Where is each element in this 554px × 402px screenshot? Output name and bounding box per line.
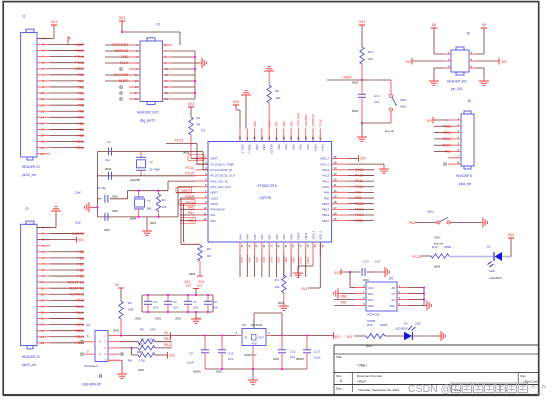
svg-text:VSS: VSS — [389, 304, 395, 308]
svg-text:PB0: PB0 — [77, 122, 84, 126]
svg-text:104: 104 — [290, 355, 295, 359]
wire U3 output 3V3 — [272, 332, 334, 338]
resistor R6 1.5K pullup — [128, 348, 175, 372]
svg-text:28: 28 — [334, 200, 338, 204]
svg-text:TDO/PB3: TDO/PB3 — [304, 114, 308, 127]
svg-text:PA8: PA8 — [324, 196, 330, 200]
svg-text:PB8: PB8 — [77, 268, 84, 272]
svg-text:PA0: PA0 — [78, 73, 84, 77]
LED D1 LED0805 — [395, 322, 422, 341]
power 3V3 decoupling — [186, 284, 203, 296]
svg-text:PB9: PB9 — [255, 145, 259, 151]
resistor R7 1M parallel crystal — [138, 190, 167, 218]
svg-text:PB6: PB6 — [77, 256, 84, 260]
ground reset — [357, 123, 367, 141]
net label PA1 — [180, 211, 196, 215]
ground below crystal rail — [142, 217, 156, 236]
power 3V3 at J3 pins 1-2 — [119, 16, 180, 45]
svg-text:0603: 0603 — [273, 357, 279, 361]
svg-text:PA11: PA11 — [164, 337, 172, 341]
svg-text:PB6: PB6 — [282, 121, 286, 127]
svg-text:C7: C7 — [193, 300, 197, 304]
crystal Y1 8M — [129, 191, 152, 221]
svg-text:PA2: PA2 — [211, 219, 217, 223]
svg-text:PB3: PB3 — [306, 145, 310, 151]
power 3V3 at U1 VDD_3 top pin — [233, 100, 240, 129]
svg-text:J3: J3 — [156, 23, 160, 27]
svg-text:PB7: PB7 — [77, 262, 84, 266]
svg-text:104: 104 — [375, 260, 380, 264]
svg-text:R8: R8 — [140, 328, 144, 332]
svg-text:BOOT0: BOOT0 — [270, 145, 274, 155]
svg-text:C4: C4 — [153, 300, 157, 304]
svg-text:PA12: PA12 — [355, 174, 363, 178]
ground USB pin5 — [108, 360, 127, 378]
svg-text:AT24C02: AT24C02 — [367, 313, 380, 317]
svg-text:30: 30 — [334, 189, 338, 193]
svg-text:22R: 22R — [148, 337, 153, 341]
svg-text:BOOT0: BOOT0 — [72, 232, 84, 236]
svg-text:PB13: PB13 — [355, 213, 364, 217]
svg-text:10k: 10k — [275, 285, 280, 289]
svg-text:10: 10 — [203, 206, 207, 210]
svg-text:WP: WP — [368, 292, 373, 296]
svg-text:R3: R3 — [207, 247, 211, 251]
svg-text:PA1: PA1 — [188, 211, 194, 215]
svg-text:TCLK: TCLK — [319, 119, 323, 127]
svg-text:PA8: PA8 — [78, 317, 84, 321]
power 3V3 flag at J2 pin3 — [37, 237, 84, 243]
capacitor C11 104 — [218, 336, 234, 370]
svg-text:PB1: PB1 — [284, 257, 288, 263]
svg-text:0603: 0603 — [175, 317, 181, 321]
wire left rail crystal caps — [97, 199, 99, 217]
svg-text:Title: Title — [336, 355, 342, 359]
svg-text:C1: C1 — [107, 140, 111, 144]
svg-text:PA7: PA7 — [269, 257, 273, 263]
svg-text:jtag_pin20: jtag_pin20 — [139, 119, 155, 123]
svg-text:Y1: Y1 — [147, 199, 151, 203]
svg-text:27: 27 — [334, 206, 338, 210]
svg-text:PC15-OSC32_OUT: PC15-OSC32_OUT — [211, 174, 236, 178]
svg-text:Document Number: Document Number — [357, 374, 382, 378]
svg-text:NRST: NRST — [211, 191, 219, 195]
power 5V at J5 pin1 — [431, 23, 443, 54]
svg-text:C12: C12 — [290, 350, 296, 354]
svg-text:PB10: PB10 — [297, 232, 301, 239]
net label PB7 SDA — [334, 300, 355, 305]
svg-text:PA13: PA13 — [76, 299, 84, 303]
svg-text:A2: A2 — [391, 298, 395, 302]
svg-text:PA7: PA7 — [78, 116, 84, 120]
power 3V3 at J1 pin1 — [37, 20, 57, 38]
svg-text:PB15: PB15 — [75, 323, 84, 327]
svg-text:PB15: PB15 — [355, 202, 364, 206]
svg-text:PB13: PB13 — [75, 335, 84, 339]
svg-text:3V3: 3V3 — [197, 284, 203, 288]
svg-text:A1: A1 — [391, 292, 395, 296]
wire D1 to ground — [412, 335, 438, 337]
svg-text:PB6: PB6 — [341, 294, 347, 298]
svg-text:C11: C11 — [228, 352, 234, 356]
svg-text:22pF: 22pF — [75, 191, 82, 195]
capacitor C10 10uF — [303, 336, 321, 370]
bottom side rotated net labels — [240, 257, 310, 265]
svg-text:SW2: SW2 — [427, 210, 434, 214]
svg-text:3V3: 3V3 — [508, 233, 514, 237]
svg-text:34: 34 — [334, 166, 338, 170]
ground regulator — [248, 369, 258, 384]
capacitor C1 16p — [105, 140, 112, 171]
svg-text:C8: C8 — [213, 300, 217, 304]
svg-text:3V3: 3V3 — [78, 238, 84, 242]
ground U5 — [424, 301, 431, 311]
svg-text:U1: U1 — [201, 129, 205, 133]
svg-text:Date: Date — [336, 387, 342, 391]
svg-text:<Title>: <Title> — [357, 364, 367, 368]
svg-text:PB6: PB6 — [284, 145, 288, 151]
svg-text:PB11: PB11 — [304, 232, 308, 239]
svg-text:PD1_OSC_OUT: PD1_OSC_OUT — [211, 185, 232, 189]
svg-text:PB5: PB5 — [289, 121, 293, 127]
svg-text:12: 12 — [203, 217, 207, 221]
wire OSC32 bottom rail — [97, 172, 196, 176]
svg-text:PB8: PB8 — [262, 145, 266, 151]
svg-text:PB1: PB1 — [77, 128, 84, 132]
svg-text:PA5: PA5 — [255, 257, 259, 263]
svg-text:0603: 0603 — [138, 368, 144, 372]
resistor R3 0R VDDA filter — [181, 198, 212, 284]
svg-text:TRST/PB4: TRST/PB4 — [112, 43, 128, 47]
svg-text:PA11: PA11 — [355, 179, 363, 183]
capacitor C3 22pF upper — [75, 186, 128, 203]
resistor R1 0R from 3V3 to VBAT — [183, 102, 201, 159]
svg-text:3V3: 3V3 — [501, 60, 507, 64]
svg-text:TDO/PB3: TDO/PB3 — [113, 73, 128, 77]
svg-text:R4: R4 — [275, 278, 279, 282]
svg-text:35: 35 — [334, 161, 338, 165]
svg-text:0603: 0603 — [150, 221, 156, 225]
svg-text:PA11: PA11 — [323, 179, 330, 183]
svg-text:CSDN @: CSDN @ — [408, 383, 451, 395]
svg-text:<Doc>: <Doc> — [357, 380, 367, 384]
power 3V3 wire at U1 VDD_1 bottom pin — [301, 242, 320, 291]
resistor R12 620R — [431, 242, 452, 269]
svg-text:PB4: PB4 — [299, 145, 303, 151]
switch SW1 reset key — [361, 80, 407, 133]
net label PC13 LED — [412, 255, 431, 259]
resistor R8 22R USB D- — [120, 328, 172, 347]
svg-text:PB1: PB1 — [445, 150, 451, 154]
svg-text:R1: R1 — [197, 116, 201, 120]
svg-text:VDDA: VDDA — [211, 202, 219, 206]
ground decoupling bus — [191, 311, 201, 323]
svg-text:PA6: PA6 — [262, 257, 266, 263]
svg-text:OUT: OUT — [258, 336, 265, 340]
svg-text:HEADER 3X2: HEADER 3X2 — [447, 80, 467, 84]
resistor R10 620R — [366, 323, 388, 348]
capacitor C2 16p — [109, 172, 112, 180]
ground at J5 pin5 — [429, 68, 443, 85]
svg-text:VBAT: VBAT — [75, 43, 85, 47]
svg-text:PB15: PB15 — [443, 125, 451, 129]
svg-text:C14: C14 — [374, 94, 380, 98]
svg-text:VSS_1: VSS_1 — [311, 230, 315, 239]
svg-text:3V3: 3V3 — [360, 157, 366, 161]
svg-text:PA0: PA0 — [188, 206, 194, 210]
svg-text:SW1: SW1 — [400, 98, 407, 102]
svg-text:104: 104 — [374, 100, 379, 104]
svg-text:32: 32 — [334, 178, 338, 182]
svg-text:PA8: PA8 — [355, 196, 361, 200]
svg-text:IDHeader5: IDHeader5 — [84, 364, 98, 368]
svg-text:SW1: SW1 — [400, 105, 407, 109]
svg-text:SOT223: SOT223 — [251, 323, 263, 327]
svg-text:PB13: PB13 — [443, 131, 451, 135]
title block — [334, 345, 539, 395]
svg-text:26: 26 — [334, 211, 338, 215]
LED D2 LED0805 — [487, 245, 502, 281]
svg-text:10R: 10R — [128, 308, 134, 312]
svg-text:0603: 0603 — [113, 329, 120, 333]
svg-text:U3: U3 — [242, 323, 246, 327]
svg-text:VDD_2: VDD_2 — [320, 157, 329, 161]
svg-text:0603: 0603 — [352, 109, 359, 113]
svg-text:104: 104 — [173, 306, 178, 310]
wire bus J3 even pins to ground — [172, 51, 199, 99]
svg-text:C3 15p: C3 15p — [97, 186, 106, 190]
power 3V3 reset pullup — [359, 20, 365, 47]
svg-text:C6: C6 — [173, 300, 177, 304]
svg-text:29: 29 — [334, 194, 338, 198]
svg-text:0603: 0603 — [216, 370, 222, 374]
svg-text:PA1: PA1 — [211, 213, 217, 217]
svg-text:5V: 5V — [432, 23, 437, 27]
power 3V3 at J5 pin3 — [405, 58, 443, 65]
svg-text:NRST: NRST — [442, 143, 451, 147]
svg-text:0603: 0603 — [434, 265, 441, 269]
microcontroller U1 STM32 LQFP48 — [196, 129, 349, 278]
svg-text:ja32768: ja32768 — [129, 178, 140, 182]
svg-text:PB7: PB7 — [277, 145, 281, 151]
power 3V3 at U1 VDD_2 right pin — [348, 155, 366, 161]
net label PC13 with wire — [166, 139, 208, 165]
svg-text:0603: 0603 — [112, 195, 118, 199]
power 3V3 at J6 pin1 — [426, 117, 448, 124]
ground at U1 VSS_3 top pin — [241, 91, 251, 129]
wire R12 to D2 — [449, 256, 493, 258]
svg-text:PB5: PB5 — [77, 250, 84, 254]
svg-text:10uF: 10uF — [187, 361, 194, 365]
svg-text:0603: 0603 — [104, 228, 110, 232]
svg-text:PA4: PA4 — [246, 234, 250, 240]
svg-text:PB15: PB15 — [322, 202, 329, 206]
svg-text:pin20_me: pin20_me — [22, 363, 36, 367]
net label NRST boxed at U1 pin7 — [176, 188, 196, 194]
svg-text:VSSA: VSSA — [211, 196, 219, 200]
svg-text:PA6: PA6 — [260, 234, 264, 240]
svg-text:C9: C9 — [189, 352, 193, 356]
connector J1 HEADER 20 — [21, 15, 85, 178]
svg-text:PB11: PB11 — [306, 257, 310, 264]
svg-text:LED0805: LED0805 — [489, 276, 502, 280]
net label VSSA — [180, 194, 196, 198]
svg-text:3V3: 3V3 — [188, 102, 194, 106]
svg-text:R6: R6 — [128, 358, 132, 362]
net 3V3 power LED — [334, 335, 366, 339]
svg-text:PB2: PB2 — [77, 134, 84, 138]
svg-text:^_^: ^_^ — [530, 383, 546, 395]
svg-text:USB-MINI-5P: USB-MINI-5P — [82, 383, 101, 387]
svg-text:3V3: 3V3 — [334, 335, 340, 339]
svg-text:104: 104 — [193, 306, 198, 310]
svg-text:VDD_3: VDD_3 — [248, 145, 252, 154]
svg-text:0603: 0603 — [363, 278, 369, 282]
svg-text:pin_3X2: pin_3X2 — [451, 87, 463, 91]
svg-text:PA13: PA13 — [322, 168, 329, 172]
wire OSC rail to PD0 pin5 — [128, 181, 196, 199]
svg-text:PC14: PC14 — [186, 166, 195, 170]
ground at J5 pin6 — [477, 68, 489, 85]
capacitor C4 104 — [135, 294, 158, 320]
svg-text:J5: J5 — [466, 32, 470, 36]
svg-text:HEADER 10X2: HEADER 10X2 — [137, 111, 159, 115]
svg-text:PA13: PA13 — [355, 168, 363, 172]
svg-text:VDDA: VDDA — [74, 67, 84, 71]
svg-text:104: 104 — [228, 357, 233, 361]
svg-text:3V3: 3V3 — [426, 119, 432, 123]
svg-text:0603: 0603 — [155, 317, 161, 321]
svg-text:0603: 0603 — [189, 272, 196, 276]
svg-text:VBAT: VBAT — [195, 157, 203, 161]
svg-text:AMS1117: AMS1117 — [244, 353, 257, 357]
svg-text:PA1: PA1 — [78, 79, 84, 83]
svg-text:3V3: 3V3 — [51, 20, 57, 24]
svg-text:36: 36 — [334, 155, 338, 159]
svg-text:3V3: 3V3 — [169, 354, 175, 358]
svg-text:0805C: 0805C — [193, 370, 201, 374]
svg-text:J1: J1 — [22, 15, 26, 19]
net label PB6 SCL — [334, 294, 355, 299]
svg-text:VCC: VCC — [368, 286, 375, 290]
wire left rail to ground — [97, 152, 99, 199]
svg-text:R2: R2 — [275, 89, 279, 93]
svg-text:PB14: PB14 — [322, 208, 329, 212]
wire A0 A1 A2 VSS to ground — [408, 287, 425, 306]
svg-text:PA3: PA3 — [78, 91, 84, 95]
svg-text:3V3: 3V3 — [233, 100, 239, 104]
svg-text:HEADER 20: HEADER 20 — [22, 355, 40, 359]
svg-text:VSS_2: VSS_2 — [320, 162, 329, 166]
svg-text:0603: 0603 — [138, 343, 144, 347]
svg-text:U4: U4 — [86, 323, 90, 327]
svg-text:NRST: NRST — [182, 189, 191, 193]
ground crystal caps — [85, 202, 99, 212]
net label VDDA boxed — [179, 200, 196, 206]
svg-text:PA14: PA14 — [321, 145, 325, 152]
svg-text:R10: R10 — [367, 323, 373, 327]
svg-text:0603: 0603 — [352, 81, 359, 85]
svg-text:LED: LED — [415, 322, 422, 326]
svg-text:A0: A0 — [391, 286, 395, 290]
svg-text:PB12: PB12 — [322, 219, 329, 223]
resistor R9 22R USB D+ — [120, 337, 172, 354]
ground SW2 — [480, 218, 487, 228]
svg-text:PB10: PB10 — [75, 140, 84, 144]
svg-text:0603: 0603 — [105, 167, 112, 171]
svg-text:PB9: PB9 — [77, 274, 84, 278]
svg-text:PA12: PA12 — [76, 305, 84, 309]
svg-text:PA3: PA3 — [238, 234, 242, 240]
svg-text:HEADER 8: HEADER 8 — [456, 174, 472, 178]
ground D1 — [438, 331, 445, 341]
svg-text:PB11: PB11 — [76, 146, 84, 150]
svg-text:0603: 0603 — [135, 317, 141, 321]
ground WP pin — [334, 289, 355, 299]
svg-text:PB2: PB2 — [289, 234, 293, 240]
svg-text:PB0: PB0 — [275, 234, 279, 240]
svg-text:10k: 10k — [368, 57, 373, 61]
wire U3 tab to output — [254, 313, 282, 336]
svg-text:VBAT: VBAT — [211, 157, 218, 161]
svg-text:PB12: PB12 — [443, 137, 451, 141]
ground C13 — [382, 267, 389, 277]
svg-text:R2: R2 — [162, 198, 166, 202]
svg-text:LED0805: LED0805 — [395, 327, 408, 331]
wire R10 to D1 — [385, 335, 404, 337]
svg-text:3V3: 3V3 — [405, 60, 411, 64]
svg-text:1M: 1M — [162, 205, 167, 209]
wire VCC to 3V3 — [350, 272, 355, 288]
svg-text:0603: 0603 — [278, 301, 285, 305]
svg-text:STM32C8T6: STM32C8T6 — [257, 184, 276, 188]
svg-text:3V3: 3V3 — [119, 16, 125, 20]
svg-text:PA4: PA4 — [78, 98, 84, 102]
svg-text:PB10: PB10 — [299, 257, 303, 265]
net label NRST wire — [327, 76, 363, 85]
net label VBAT boxed — [188, 155, 204, 161]
svg-text:pin8_me: pin8_me — [459, 182, 471, 186]
connector U4 USB-MINI-5P — [81, 323, 120, 387]
svg-text:D1: D1 — [404, 322, 408, 326]
capacitor C8 106 — [195, 294, 218, 320]
svg-text:PA0-WKUP: PA0-WKUP — [211, 208, 226, 212]
connector J2 HEADER 20 — [21, 207, 84, 367]
svg-text:PA0: PA0 — [409, 221, 415, 225]
svg-text:PB7: PB7 — [341, 300, 347, 304]
svg-text:PA12: PA12 — [322, 174, 329, 178]
svg-text:33: 33 — [334, 172, 338, 176]
svg-text:PC13: PC13 — [75, 49, 84, 53]
svg-text:VDD_1: VDD_1 — [319, 230, 323, 239]
svg-text:TDI/PA15: TDI/PA15 — [114, 49, 129, 53]
capacitor C7 104 — [175, 294, 198, 320]
svg-text:PC13: PC13 — [175, 139, 184, 143]
svg-text:PA2: PA2 — [78, 85, 84, 89]
svg-text:R11: R11 — [368, 50, 374, 54]
svg-text:TRST/PB4: TRST/PB4 — [297, 112, 301, 127]
svg-text:PA9: PA9 — [355, 191, 361, 195]
svg-text:SDA: SDA — [368, 304, 374, 308]
svg-text:3V3: 3V3 — [359, 20, 365, 24]
svg-text:PC13-ANTI_TAMP: PC13-ANTI_TAMP — [211, 162, 235, 166]
svg-text:key-me: key-me — [385, 129, 395, 133]
svg-text:106: 106 — [213, 306, 218, 310]
svg-text:10uF: 10uF — [314, 356, 321, 360]
power 3V3 and capacitor C13 104 — [334, 260, 382, 283]
svg-text:PB2: PB2 — [291, 257, 295, 263]
capacitor C14 104 — [352, 80, 380, 123]
